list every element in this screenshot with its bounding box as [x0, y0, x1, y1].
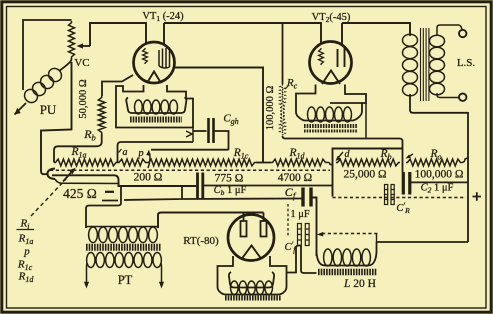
label 775 ohm	[215, 173, 244, 185]
loudspeaker terminal bottom	[459, 94, 466, 101]
label tap p	[137, 148, 143, 159]
label R1a	[70, 146, 86, 160]
legend R1c	[17, 259, 33, 273]
label LS	[457, 57, 476, 69]
capacitor Cgh	[209, 118, 214, 143]
wire Ro end to bus	[462, 158, 468, 163]
wire VT1 plate to chain	[174, 68, 263, 163]
label PU	[40, 102, 57, 117]
svg-text:a: a	[123, 147, 128, 158]
label PT	[118, 273, 133, 287]
svg-text:p: p	[137, 148, 143, 159]
triode VT2 envelope	[310, 42, 352, 84]
svg-text:Rb: Rb	[83, 127, 96, 143]
label 100000 ohm box	[415, 169, 464, 181]
svg-text:Rc: Rc	[286, 77, 298, 91]
svg-text:Cgh: Cgh	[223, 113, 238, 127]
tap e arrow	[406, 154, 414, 159]
rectifier RT plates	[241, 213, 267, 237]
triode VT2 grid	[319, 48, 324, 65]
triode VT2 filament winding	[308, 107, 352, 122]
tap p wiper arrow	[146, 150, 150, 169]
svg-text:C′R: C′R	[396, 201, 410, 215]
resistor R1c section	[147, 159, 256, 166]
wire C2 to bus	[410, 181, 468, 183]
svg-text:RT(-80): RT(-80)	[183, 235, 219, 247]
wire box left edge	[333, 149, 403, 197]
svg-text:4700 Ω: 4700 Ω	[278, 172, 312, 184]
triode VT2 socket housing	[296, 85, 366, 121]
svg-text:PU: PU	[40, 102, 57, 117]
capacitor C'R	[385, 185, 395, 205]
svg-text:425 Ω: 425 Ω	[63, 186, 97, 201]
wire VT1 grid stub to Rb	[102, 75, 133, 96]
triode VT1 envelope	[134, 42, 175, 83]
label 50000 ohm vertical	[78, 79, 89, 119]
svg-text:VC: VC	[74, 57, 89, 69]
svg-text:d: d	[345, 149, 351, 160]
legend R1d	[18, 271, 35, 285]
svg-text:L.S.: L.S.	[457, 57, 476, 69]
capacitor Cb	[198, 173, 203, 199]
capacitor C'f	[298, 224, 310, 246]
plus terminal	[473, 192, 482, 200]
label VC	[74, 57, 89, 69]
svg-text:Ro: Ro	[429, 148, 441, 162]
svg-text:C2 1 μF: C2 1 μF	[421, 183, 454, 195]
filter choke housing	[317, 242, 377, 266]
dashed legend pointer	[31, 179, 66, 216]
chain left end bracket	[48, 169, 56, 180]
label 25000 ohm	[343, 169, 386, 181]
svg-text:100,000 Ω: 100,000 Ω	[415, 169, 464, 181]
wire chain end to box	[327, 162, 333, 164]
loudspeaker terminal top	[459, 30, 466, 37]
svg-text:R1d: R1d	[18, 271, 35, 285]
label VT2	[312, 12, 351, 24]
svg-text:R1d: R1d	[288, 147, 305, 161]
resistor R1d section	[271, 159, 327, 166]
label 200 ohm	[134, 172, 163, 184]
filter choke winding	[324, 249, 371, 266]
label Rb 25000	[379, 148, 391, 162]
label Rb	[83, 127, 96, 143]
wire PU top rail	[23, 20, 72, 90]
label Cf	[285, 185, 297, 201]
dashed line over choke	[317, 232, 379, 242]
dashed wire to C'f	[287, 204, 289, 237]
output transformer secondary	[430, 25, 463, 98]
capacitor Cf	[303, 188, 311, 207]
wire Cb right line	[203, 185, 333, 187]
svg-text:50,000 Ω: 50,000 Ω	[78, 79, 89, 119]
wire Cf right riser	[311, 198, 317, 257]
wire Cgh right to p line	[214, 131, 229, 150]
dashed bus box bottom	[333, 197, 467, 199]
pickup PU coil	[15, 59, 72, 115]
label VT1	[142, 11, 184, 23]
triode VT2 filament	[322, 71, 340, 85]
svg-text:R1c: R1c	[233, 147, 249, 161]
power transformer primary	[86, 227, 158, 243]
svg-text:p: p	[23, 246, 30, 258]
svg-text:Cf: Cf	[285, 185, 297, 201]
label R1c	[233, 147, 249, 161]
resistor Ro 100000	[406, 159, 462, 166]
label C2 1uF	[421, 183, 454, 195]
svg-text:L 20 H: L 20 H	[343, 278, 376, 290]
tap d arrow	[336, 149, 351, 161]
resistor R1a section	[54, 159, 118, 166]
power transformer core bar	[86, 244, 161, 251]
wire junction to Cgh	[193, 130, 207, 132]
svg-text:Cb 1 μF: Cb 1 μF	[214, 185, 247, 197]
label C'f	[285, 240, 298, 254]
triode VT2 plate	[338, 48, 345, 67]
triode VT1 socket housing	[116, 85, 193, 128]
power transformer secondary	[84, 253, 164, 289]
label L 20 H	[343, 278, 376, 290]
resistor Rb 25000	[336, 159, 400, 166]
wire 200line to PT	[86, 186, 121, 228]
label Ro	[429, 148, 441, 162]
legend R1a	[18, 233, 34, 247]
rectifier RT filament	[242, 246, 261, 259]
rectifier RT heater bar	[225, 296, 281, 301]
rectifier RT envelope	[228, 215, 274, 261]
svg-text:1 μF: 1 μF	[290, 209, 310, 220]
wire 425 line	[52, 175, 196, 186]
svg-text:VT1 (-24): VT1 (-24)	[142, 11, 184, 23]
wire RT output riser	[287, 246, 302, 273]
capacitor C2	[403, 172, 410, 195]
label RT	[183, 235, 219, 247]
wire plate VT1 to grid VT2	[164, 23, 321, 44]
label R1d	[288, 147, 305, 161]
label C'R	[396, 201, 410, 215]
wire VC bottom to 425 line	[41, 62, 72, 174]
svg-text:25,000 Ω: 25,000 Ω	[343, 169, 386, 181]
svg-text:PT: PT	[118, 273, 133, 287]
svg-text:R1a: R1a	[18, 233, 34, 247]
svg-text:Rb: Rb	[379, 148, 391, 162]
wire plate VT2 to transformer	[342, 23, 410, 45]
triode VT2 heater bar	[304, 126, 357, 131]
label 4700 ohm	[278, 172, 312, 184]
svg-text:R1a: R1a	[70, 146, 86, 160]
wire C'f bottom to choke node	[301, 246, 317, 274]
triode VT1 grid	[143, 48, 148, 64]
label 100000 vertical	[265, 86, 276, 131]
legend Ri	[17, 218, 35, 232]
wire Rb bottom to chain	[54, 134, 102, 163]
tap p wire	[151, 149, 229, 151]
svg-text:100,000 Ω: 100,000 Ω	[265, 86, 276, 131]
triode VT1 heater bar	[130, 117, 182, 123]
wire choke to bus	[377, 241, 469, 243]
minus terminal mark	[105, 191, 114, 193]
tap arrow on 425 line	[63, 168, 76, 182]
svg-text:775 Ω: 775 Ω	[215, 173, 244, 185]
triode VT1 filament	[147, 72, 161, 84]
svg-text:200 Ω: 200 Ω	[134, 172, 163, 184]
wire VT2 housing to cathode line	[365, 103, 367, 139]
label 1uF	[290, 209, 310, 220]
label Cgh	[223, 113, 238, 127]
wire chain flat at plate junction	[256, 162, 271, 164]
wire PT to RT plates	[158, 213, 264, 229]
filter choke core bar	[318, 269, 377, 276]
resistor Rb 50000	[98, 96, 105, 134]
triode VT1 filament winding	[135, 100, 178, 114]
wire grid hairpin VT1	[90, 23, 146, 46]
resistor 200 ohm section	[118, 159, 148, 166]
rectifier RT filament winding	[231, 281, 273, 295]
potentiometer VC	[69, 21, 75, 59]
wire bracket bottom line	[55, 179, 119, 184]
output transformer primary	[403, 33, 469, 113]
label 425 ohm	[63, 186, 97, 201]
resistor Rc 100000	[280, 23, 285, 136]
wire B plus bus	[467, 112, 469, 242]
triode VT1 plate	[159, 48, 170, 68]
label Rc	[285, 77, 298, 91]
output transformer core	[421, 28, 429, 101]
wire VC wiper	[77, 43, 91, 48]
legend p	[23, 246, 30, 258]
tap a wire	[118, 142, 194, 162]
dashed bus under chain	[50, 169, 330, 171]
label Cb 1uF	[214, 185, 247, 197]
wire VT2 cathode line	[283, 136, 403, 172]
wire VT1 housing to Cgh junction	[186, 128, 193, 143]
rectifier RT socket housing	[218, 256, 287, 295]
wire lower minus line	[102, 186, 302, 201]
label tap a	[119, 147, 128, 158]
